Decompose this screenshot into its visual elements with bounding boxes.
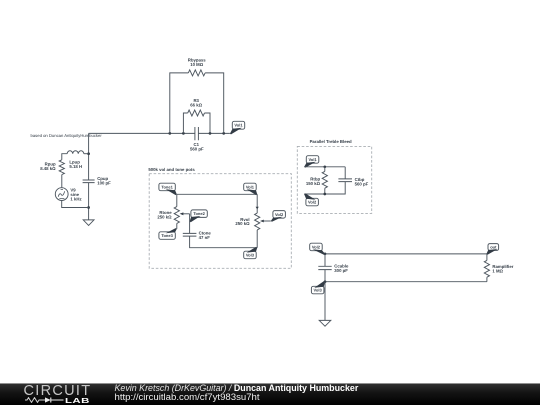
node Tone2 flag [190, 210, 208, 222]
svg-text:based on Duncan AntiquityHumbu: based on Duncan AntiquityHumbucker [31, 133, 103, 138]
node Tone1 flag [159, 183, 177, 195]
junction dot treble top [323, 165, 326, 168]
wire Vol1 down to Rvol [256, 194, 258, 213]
svg-text:300 pF: 300 pF [334, 268, 348, 273]
wire main bus left (pickup to C1) [89, 132, 195, 134]
wire Rtbp top lead [324, 167, 326, 172]
svg-text:47 nF: 47 nF [199, 235, 211, 240]
wire Ccable bottom lead [324, 270, 326, 282]
svg-text:Parallel Treble Bleed: Parallel Treble Bleed [310, 139, 352, 144]
resistor R3 [188, 110, 205, 116]
capacitor Ccable [318, 266, 331, 269]
svg-text:560 pF: 560 pF [355, 181, 369, 186]
wire Rtone bottom lead [176, 223, 178, 229]
label Ctone 47 nF [199, 230, 212, 240]
node Vol2 flag (tone box) [271, 211, 286, 222]
label C1 560 pF [190, 142, 204, 152]
label Ctbp 560 pF [355, 177, 369, 187]
ground (cable) [319, 320, 331, 326]
wire Rvol bottom to bottom wire [256, 230, 258, 248]
resistor Rpup [59, 160, 64, 175]
potentiometer Rtone wiper arrow [180, 212, 190, 215]
svg-text:Vol1: Vol1 [309, 157, 318, 162]
junction dots on bus [168, 132, 225, 135]
label Ramplifier 1 MΩ [492, 264, 513, 274]
junction dot cable bottom [324, 280, 327, 283]
svg-text:1 MΩ: 1 MΩ [492, 269, 503, 274]
junction marker on Rvol top lead [256, 207, 259, 210]
node Vol1 flag (main bus) [230, 121, 245, 134]
label Rtbp 150 kΩ [306, 176, 321, 186]
wire Ctbp top lead [344, 167, 346, 179]
wire Tone1 down to Rtone [176, 194, 178, 206]
svg-text:Vol1: Vol1 [246, 184, 255, 189]
wire R3 right leg [205, 113, 211, 133]
wire Rtbp bottom lead [324, 188, 326, 194]
svg-text:Vol1: Vol1 [234, 123, 243, 128]
svg-text:Vol2: Vol2 [275, 212, 284, 217]
capacitor Ctone [183, 233, 197, 236]
wire Rbypass right leg [205, 73, 224, 133]
svg-text:Tone2: Tone2 [193, 211, 205, 216]
junction dot pickup bottom node [87, 206, 90, 209]
wire treble bleed top [304, 166, 345, 168]
resistor Rbypass [188, 70, 205, 76]
node Vol1 flag (tone box) [244, 183, 258, 195]
wire wiper down to Ctone [189, 214, 191, 234]
wire Ctone to bottom wire [190, 236, 258, 248]
label Rpup 8.48 kΩ [40, 162, 56, 171]
wire pickup main vertical (lower) [88, 183, 90, 220]
resistor Rtbp [322, 171, 327, 188]
svg-text:Vol3: Vol3 [246, 252, 255, 257]
svg-text:150 kΩ: 150 kΩ [306, 181, 321, 186]
wire Rpup to V9 [61, 175, 63, 188]
wire R3 left leg [183, 113, 187, 133]
label V9 sine 1 kHz [70, 188, 81, 202]
wire tone box top (Tone1 to Vol1) [177, 193, 257, 195]
node Vol3 flag (tone box) [244, 247, 258, 259]
dashed box 500k vol and tone pots [149, 174, 291, 269]
label Rtone 250 kΩ [157, 210, 172, 220]
wire pickup main vertical (upper) [88, 133, 90, 180]
node Tone3 flag [159, 228, 177, 239]
wire V9 bottom to ground node [62, 201, 89, 208]
svg-text:560 pF: 560 pF [190, 147, 204, 152]
voltage source V9 (sine) [55, 188, 68, 201]
node Vol2 flag (cable) [310, 243, 325, 255]
svg-text:Tone3: Tone3 [161, 233, 173, 238]
wire inductor right lead [84, 153, 89, 155]
wire Ramplifier top lead [486, 254, 488, 261]
wire Ctbp bottom lead + treble bottom [304, 182, 345, 194]
svg-text:5.18 H: 5.18 H [69, 164, 82, 169]
junction dot treble bottom [323, 193, 326, 196]
junction dot pickup top node [87, 152, 90, 155]
label Cpup 100 pF [97, 176, 111, 185]
svg-text:Vol2: Vol2 [312, 244, 321, 249]
potentiometer Rvol body [255, 213, 260, 230]
capacitor C1 [195, 127, 199, 140]
svg-text:Tone1: Tone1 [161, 184, 173, 189]
svg-text:out: out [490, 244, 497, 249]
label Rbypass 10 MΩ [188, 58, 207, 67]
svg-text:100 pF: 100 pF [97, 180, 111, 185]
svg-text:10 MΩ: 10 MΩ [190, 62, 204, 67]
label R3 66 kΩ [190, 98, 202, 107]
svg-text:1 kHz: 1 kHz [70, 196, 81, 201]
wire Rbypass left leg [170, 73, 189, 133]
label Ccable 300 pF [334, 264, 349, 274]
potentiometer Rvol wiper arrow [260, 220, 271, 223]
svg-text:8.48 kΩ: 8.48 kΩ [40, 166, 56, 171]
junction dot cable top [324, 253, 327, 256]
wire down to ground [324, 282, 326, 321]
svg-text:500k vol and tone pots: 500k vol and tone pots [148, 167, 195, 172]
wire inductor left lead to Rpup [62, 154, 67, 160]
node Vol3 flag (cable) [311, 281, 325, 294]
wire Ramplifier bottom lead [486, 277, 488, 282]
wire Ccable top lead [324, 254, 326, 266]
label Rvol 250 kΩ [235, 217, 250, 226]
node out flag [486, 244, 498, 255]
label Lpup 5.18 H [69, 159, 82, 168]
svg-text:Vol3: Vol3 [314, 288, 323, 293]
node Vol1 flag (treble bleed) [304, 156, 319, 168]
wire main bus right (C1 to Vol1) [198, 132, 230, 134]
inductor Lpup [67, 151, 84, 154]
wire cable bottom [325, 281, 487, 283]
node Vol2 flag (treble bleed) [304, 193, 318, 205]
dashed box Parallel Treble Bleed [297, 146, 371, 213]
svg-text:250 kΩ: 250 kΩ [235, 221, 250, 226]
potentiometer Rtone body [174, 207, 179, 224]
capacitor Cpup [83, 180, 95, 183]
ground (pickup) [83, 220, 94, 226]
capacitor Ctbp [338, 179, 352, 182]
wire cable top [325, 253, 487, 255]
svg-text:Vol2: Vol2 [308, 200, 317, 205]
resistor Ramplifier [484, 260, 489, 277]
svg-text:66 kΩ: 66 kΩ [190, 102, 202, 107]
svg-text:250 kΩ: 250 kΩ [157, 214, 172, 219]
